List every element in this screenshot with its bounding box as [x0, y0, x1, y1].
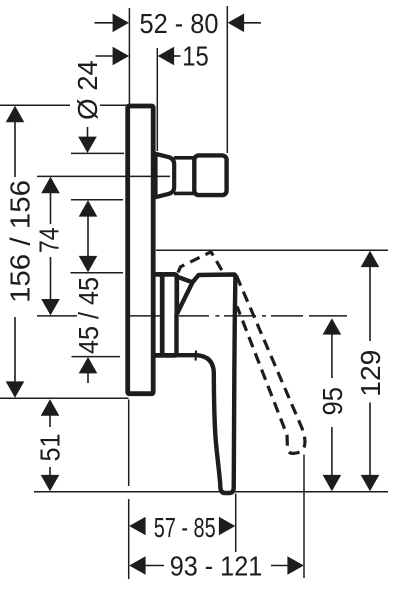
- svg-text:93 - 121: 93 - 121: [170, 551, 263, 582]
- svg-text:45 / 45: 45 / 45: [73, 277, 104, 354]
- dimension 95: [323, 318, 342, 334]
- extension line top left vertical: [128, 8, 130, 104]
- svg-text:156 / 156: 156 / 156: [5, 180, 36, 303]
- handle dashed alternate position lever outline: [236, 276, 305, 454]
- wall plate: [128, 106, 154, 394]
- dimension 156/156: [6, 106, 25, 122]
- dimension 15: [96, 55, 114, 57]
- dimension 51: [41, 399, 60, 415]
- handle lever neck wedge edge: [178, 277, 193, 283]
- handle pivot block: [162, 274, 177, 355]
- extension line valve top: [71, 152, 124, 154]
- dimension 45/45 lower helper arrow: [79, 357, 98, 373]
- svg-text:Ø 24: Ø 24: [72, 60, 103, 120]
- extension line bottom long: [34, 491, 388, 493]
- svg-text:15: 15: [182, 41, 209, 72]
- handle block connectors to plate: [153, 274, 163, 355]
- extension line block top: [71, 272, 124, 274]
- dimension Ø24 arrow: [87, 127, 89, 138]
- extension line plate top: [0, 104, 128, 106]
- dimension 52-80: [95, 22, 114, 24]
- extension line block bottom: [72, 356, 121, 358]
- extension line valve bottom: [71, 199, 123, 201]
- center line valve axis: [37, 175, 170, 177]
- handle lever body: [177, 275, 236, 494]
- extension line bottom right vertical: [303, 455, 305, 579]
- extension line bottom mid vertical: [235, 494, 237, 553]
- valve cap: [194, 155, 226, 195]
- valve stem: [174, 158, 196, 194]
- svg-text:51: 51: [35, 434, 66, 462]
- center line handle pivot axis (dash-dot): [37, 315, 347, 317]
- extension line top right vertical: [226, 6, 228, 153]
- extension line bottom left vertical: [128, 400, 130, 580]
- extension line 15 right vertical: [156, 48, 158, 151]
- svg-text:74: 74: [34, 228, 65, 254]
- svg-text:129: 129: [355, 350, 386, 397]
- valve sleeve: [156, 154, 175, 197]
- dimension 93-121: [129, 556, 145, 575]
- svg-text:57 - 85: 57 - 85: [154, 512, 216, 543]
- handle parting tick: [195, 351, 198, 361]
- handle dashed alternate position head outline: [178, 252, 224, 274]
- svg-text:52 - 80: 52 - 80: [140, 8, 219, 39]
- extension line plate bottom: [0, 397, 129, 399]
- extension line dashed handle top: [156, 249, 388, 251]
- svg-text:95: 95: [317, 387, 348, 416]
- dimension 129: [361, 251, 380, 267]
- dimension 45/45 upper: [79, 200, 98, 216]
- dimension 57-85: [129, 517, 145, 536]
- dimension 74: [41, 177, 60, 193]
